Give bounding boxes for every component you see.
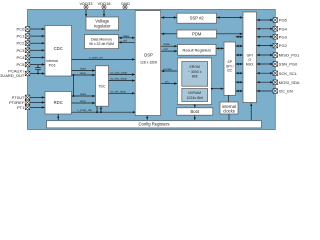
svg-text:PC2: PC2 [17, 41, 26, 46]
svg-text:NVRAM: NVRAM [188, 91, 201, 95]
svg-text:GUARD_OUT: GUARD_OUT [0, 73, 25, 78]
svg-text:ts_rdc_stop: ts_rdc_stop [111, 77, 127, 81]
svg-text:RDC: RDC [54, 100, 63, 105]
svg-text:CDC: CDC [54, 46, 63, 51]
svg-text:internal: internal [46, 59, 58, 63]
svg-text:PG5: PG5 [279, 18, 288, 23]
svg-text:O: O [248, 58, 251, 62]
svg-text:PC6: PC6 [49, 64, 56, 68]
svg-text:MUX: MUX [246, 63, 254, 67]
svg-text:ctrl: ctrl [164, 47, 168, 51]
svg-text:96 x 32-bit RAM: 96 x 32-bit RAM [89, 42, 114, 46]
svg-text:VDD18: VDD18 [98, 1, 112, 6]
svg-text:data: data [164, 42, 170, 46]
svg-text:start: start [80, 92, 86, 96]
svg-text:VDD33: VDD33 [80, 1, 94, 6]
svg-text:PC0: PC0 [17, 27, 26, 32]
svg-text:PC5: PC5 [17, 62, 26, 67]
svg-text:start: start [80, 67, 86, 71]
svg-text:PT1: PT1 [17, 105, 25, 110]
svg-text:EROM: EROM [189, 65, 200, 69]
svg-text:PG2: PG2 [279, 43, 288, 48]
svg-text:I2C: I2C [227, 69, 233, 73]
svg-text:TDC: TDC [98, 84, 106, 88]
svg-text:ts_ref_stop: ts_ref_stop [111, 89, 127, 93]
svg-text:~ 3000 x: ~ 3000 x [188, 70, 202, 74]
svg-text:Config Registers: Config Registers [139, 122, 170, 127]
svg-text:pc: pc [166, 80, 170, 84]
svg-text:Result Registers: Result Registers [183, 48, 212, 53]
svg-text:µcode: µcode [164, 67, 173, 71]
svg-text:c_axis_en: c_axis_en [89, 55, 103, 59]
svg-text:PC4: PC4 [17, 55, 26, 60]
svg-text:PG4: PG4 [279, 26, 288, 31]
svg-text:SCK_SCL: SCK_SCL [279, 71, 298, 76]
svg-text:GND: GND [121, 1, 130, 6]
svg-text:clocks: clocks [223, 108, 235, 113]
svg-text:PDM: PDM [192, 32, 202, 37]
svg-text:stop: stop [80, 71, 86, 75]
svg-text:Data Memory: Data Memory [91, 37, 112, 41]
svg-text:t_prop_dly: t_prop_dly [77, 108, 92, 112]
svg-text:I2C_EN: I2C_EN [279, 89, 293, 94]
svg-text:8bit: 8bit [192, 75, 198, 79]
svg-text:regulator: regulator [94, 23, 111, 28]
svg-text:data: data [123, 34, 129, 38]
svg-text:PC1: PC1 [17, 34, 26, 39]
svg-text:DSP: DSP [144, 53, 153, 58]
svg-text:128 x 32bit: 128 x 32bit [140, 60, 157, 64]
svg-text:stop: stop [80, 99, 86, 103]
svg-text:MISO_PG1: MISO_PG1 [279, 53, 300, 58]
svg-text:MOSI_SDA: MOSI_SDA [279, 80, 300, 85]
svg-text:ts_cdc_stop: ts_cdc_stop [111, 71, 128, 75]
svg-text:GPI: GPI [247, 54, 253, 58]
svg-text:ctrl: ctrl [123, 38, 127, 42]
svg-text:SSP #2: SSP #2 [190, 16, 205, 21]
svg-text:SSN_PG0: SSN_PG0 [279, 62, 298, 67]
svg-text:PC3: PC3 [17, 48, 26, 53]
svg-text:PG3: PG3 [279, 34, 288, 39]
svg-text:Boot: Boot [190, 109, 199, 114]
svg-text:1024x 8bit: 1024x 8bit [187, 96, 203, 100]
